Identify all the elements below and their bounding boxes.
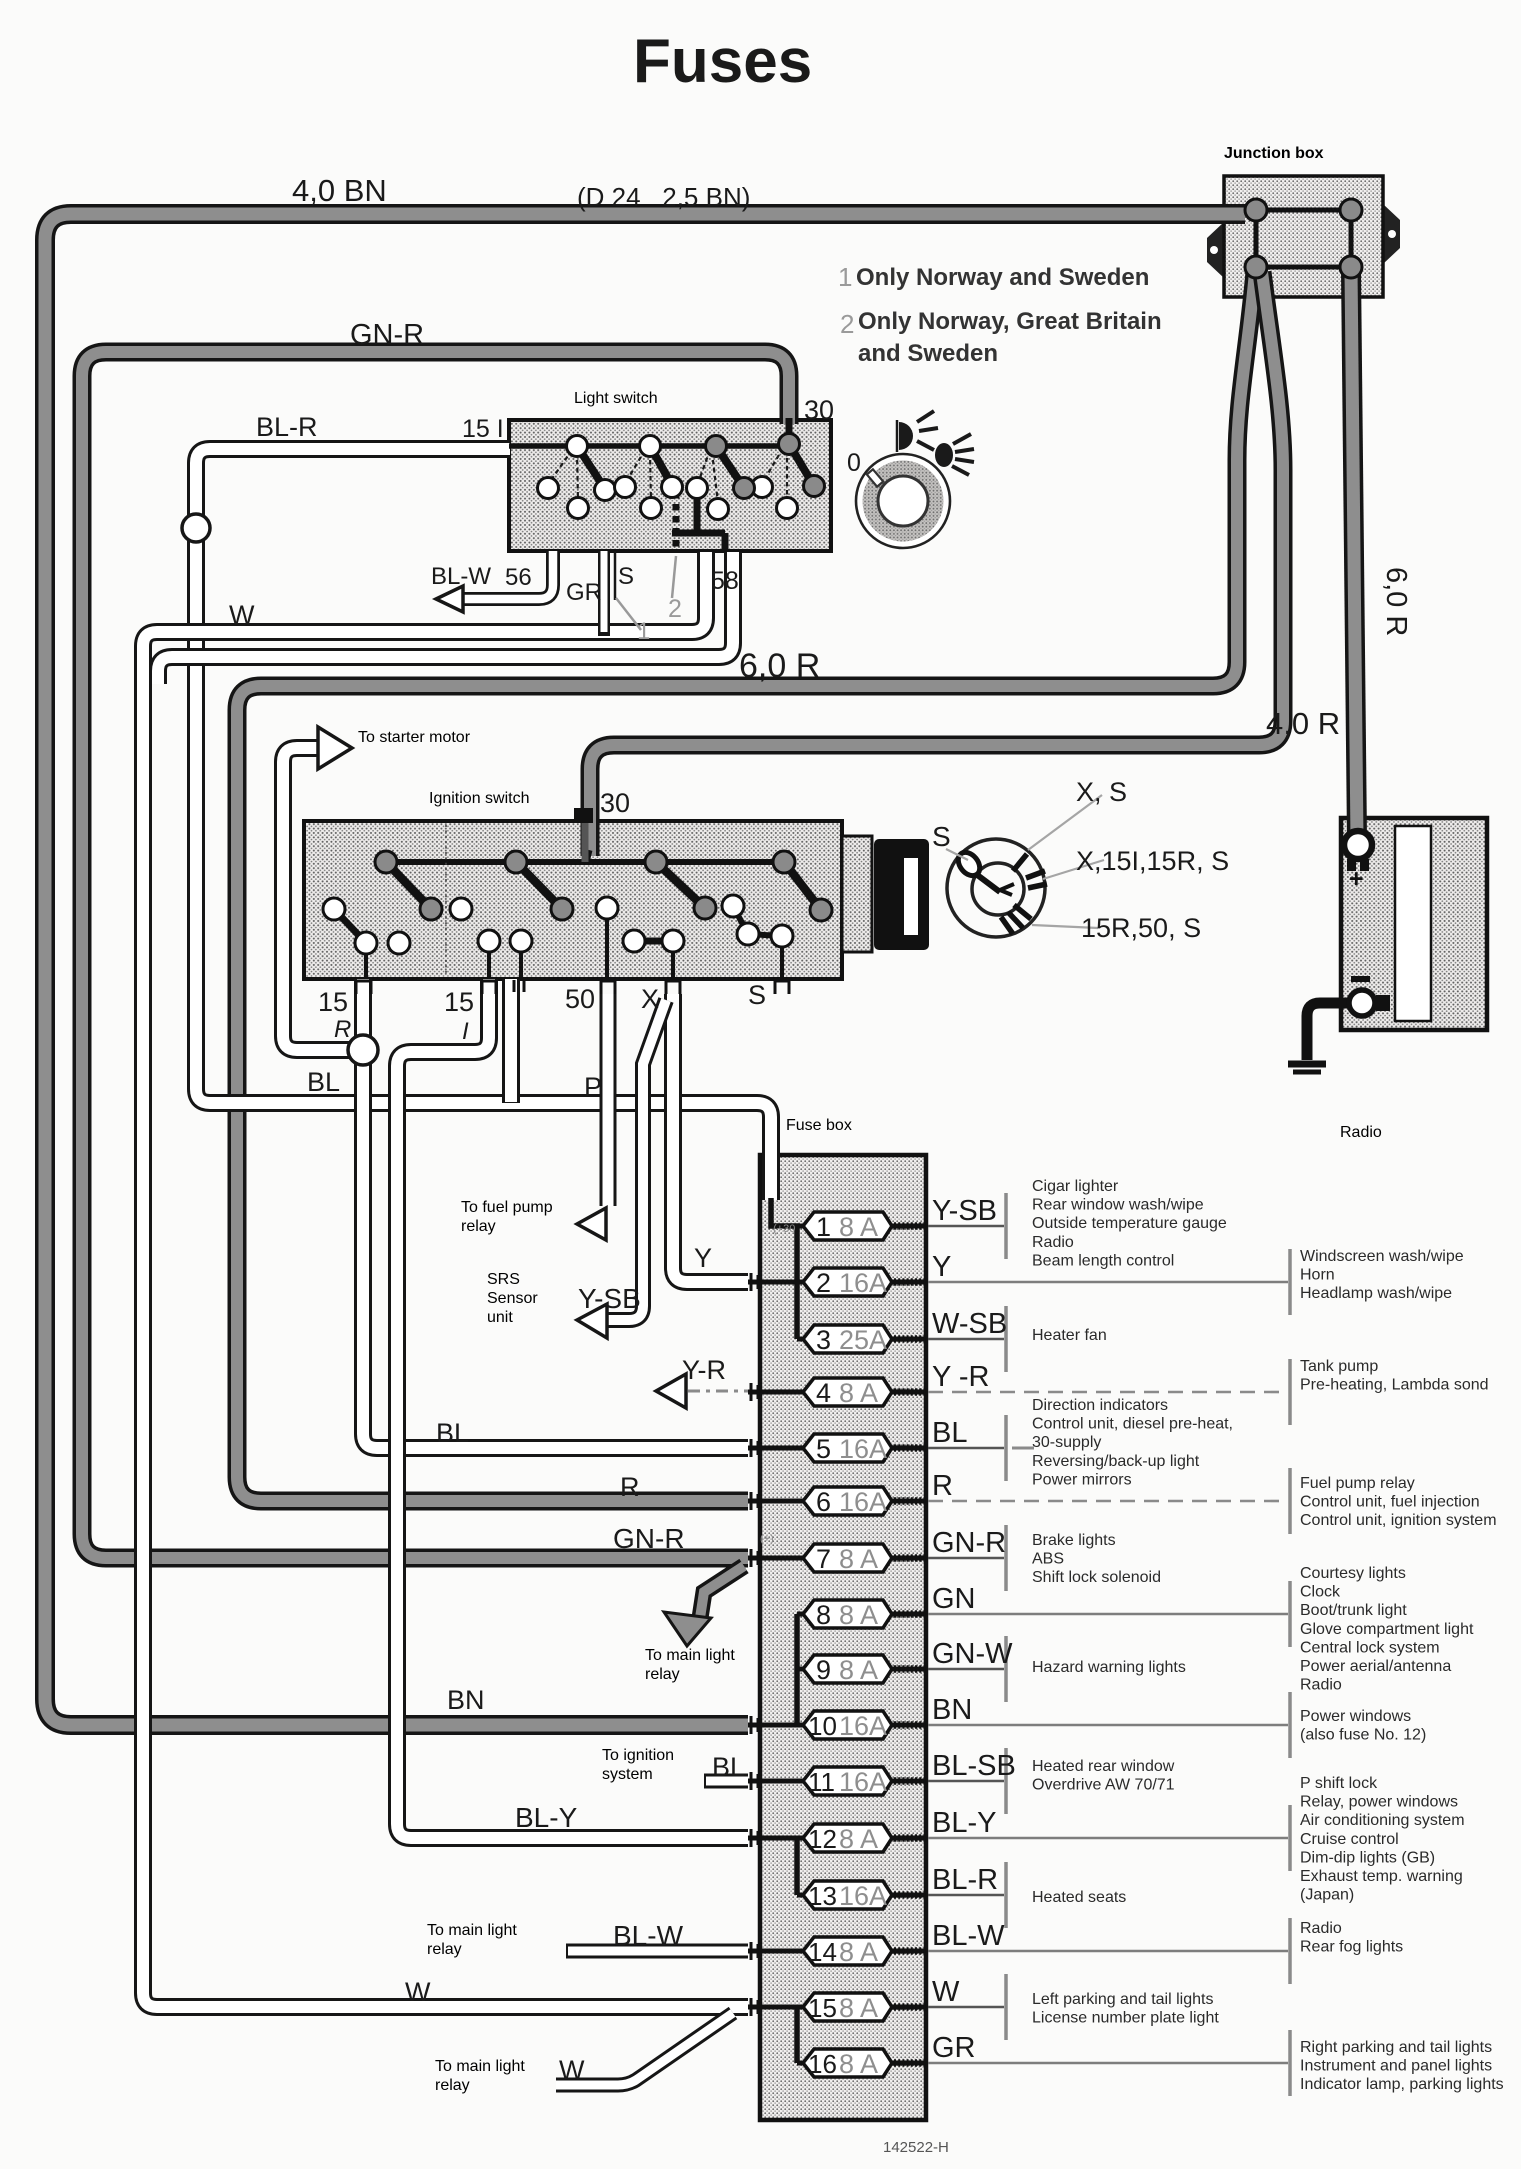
svg-text:1: 1 xyxy=(637,618,650,645)
svg-text:Radio: Radio xyxy=(1300,1677,1342,1694)
svg-text:W: W xyxy=(405,1977,431,2007)
svg-text:and Sweden: and Sweden xyxy=(858,340,998,367)
fuse F9 8 A (GN-W) xyxy=(797,1636,1013,1702)
headlight icon xyxy=(935,443,953,467)
ignition switch box xyxy=(304,821,872,979)
svg-text:3: 3 xyxy=(816,1325,831,1355)
svg-text:0: 0 xyxy=(847,449,861,477)
parking light icon xyxy=(899,422,913,450)
wire Y-SB branch to SRS sensor unit xyxy=(606,1000,666,1320)
wire S below light switch xyxy=(614,551,617,600)
svg-text:Y -R: Y -R xyxy=(932,1361,989,1393)
svg-text:15: 15 xyxy=(808,1993,837,2023)
description fuse F3 xyxy=(1032,1327,1107,1344)
svg-text:Control unit, fuel injection: Control unit, fuel injection xyxy=(1300,1494,1480,1511)
svg-text:142522-H: 142522-H xyxy=(883,2139,949,2156)
gray leader 1 xyxy=(616,598,641,630)
wire 4,0 BN : top run, left drop, BN feed to fuse 10 xyxy=(45,214,1245,1725)
svg-text:13: 13 xyxy=(808,1881,837,1911)
light switch box xyxy=(509,420,831,551)
svg-text:Radio: Radio xyxy=(1340,1124,1382,1141)
fuse F1 8 A (Y-SB) xyxy=(797,1193,1006,1259)
supply bus fuses 12-13 xyxy=(794,1838,800,1895)
svg-text:Cigar lighter: Cigar lighter xyxy=(1032,1178,1119,1195)
svg-text:12: 12 xyxy=(808,1824,837,1854)
svg-text:10: 10 xyxy=(808,1711,837,1741)
svg-text:GN-W: GN-W xyxy=(932,1638,1013,1670)
svg-text:Power mirrors: Power mirrors xyxy=(1032,1471,1132,1488)
arrow to fuel pump relay xyxy=(577,1208,606,1240)
ignition bus xyxy=(386,859,784,865)
svg-text:Courtesy lights: Courtesy lights xyxy=(1300,1565,1406,1582)
junction box terminals xyxy=(1256,210,1351,267)
svg-text:8: 8 xyxy=(816,1600,831,1630)
svg-text:BL-Y: BL-Y xyxy=(932,1807,996,1839)
supply bus fuses 8-10 xyxy=(794,1614,800,1725)
ignition contact circles xyxy=(323,851,832,954)
svg-text:8 A: 8 A xyxy=(839,1378,878,1408)
svg-text:16A: 16A xyxy=(839,1268,887,1298)
svg-text:1: 1 xyxy=(838,262,852,292)
svg-text:Reversing/back-up light: Reversing/back-up light xyxy=(1032,1453,1200,1470)
svg-text:1: 1 xyxy=(816,1212,831,1242)
svg-text:To starter motor: To starter motor xyxy=(358,729,471,746)
svg-text:BL-SB: BL-SB xyxy=(932,1750,1016,1782)
svg-text:Radio: Radio xyxy=(1300,1920,1342,1937)
svg-text:BL: BL xyxy=(712,1752,745,1782)
fuse F3 25A (W-SB) xyxy=(797,1306,1007,1372)
svg-text:16A: 16A xyxy=(839,1881,887,1911)
svg-text:X, S: X, S xyxy=(1076,777,1127,807)
svg-text:6: 6 xyxy=(816,1487,831,1517)
svg-text:5: 5 xyxy=(816,1434,831,1464)
svg-text:Sensor: Sensor xyxy=(487,1290,538,1307)
svg-text:W: W xyxy=(229,600,255,630)
svg-text:Fuses: Fuses xyxy=(633,27,812,96)
svg-text:To ignition: To ignition xyxy=(602,1747,674,1764)
svg-text:Headlamp wash/wipe: Headlamp wash/wipe xyxy=(1300,1285,1452,1302)
svg-text:11: 11 xyxy=(808,1767,835,1797)
svg-text:30: 30 xyxy=(600,788,630,818)
svg-text:R: R xyxy=(334,1016,351,1043)
svg-text:S: S xyxy=(748,980,766,1010)
svg-text:S: S xyxy=(932,821,951,852)
svg-text:(D 24 2,5 BN): (D 24 2,5 BN) xyxy=(577,182,750,212)
wire 6,0 R from junction box + R feed to fuse 6 xyxy=(237,272,1255,1501)
supply bus fuses 15-16 xyxy=(794,2007,800,2063)
svg-text:Junction box: Junction box xyxy=(1224,145,1324,162)
svg-text:Relay, power windows: Relay, power windows xyxy=(1300,1794,1458,1811)
svg-text:16A: 16A xyxy=(839,1487,887,1517)
svg-text:8 A: 8 A xyxy=(839,2049,878,2079)
svg-text:8 A: 8 A xyxy=(839,1824,878,1854)
svg-text:GN-R: GN-R xyxy=(350,319,424,351)
svg-text:Exhaust temp. warning: Exhaust temp. warning xyxy=(1300,1868,1463,1885)
svg-text:BL: BL xyxy=(932,1417,967,1449)
description fuse F12 xyxy=(1300,1775,1465,1904)
svg-text:I: I xyxy=(462,1018,469,1045)
svg-text:Heater fan: Heater fan xyxy=(1032,1327,1107,1344)
svg-text:BL-W: BL-W xyxy=(613,1920,684,1951)
svg-text:X: X xyxy=(641,984,659,1014)
supply bus fuses 1-3 xyxy=(771,1198,797,1339)
wire BL-R : light switch 15I, down left side, to fuse box top feed xyxy=(196,449,771,1200)
svg-text:relay: relay xyxy=(645,1666,680,1683)
light switch levers xyxy=(577,444,814,489)
svg-text:Y: Y xyxy=(932,1251,951,1283)
description fuse F15 xyxy=(1032,1991,1219,2027)
svg-text:4,0 R: 4,0 R xyxy=(1266,706,1340,741)
svg-text:(also fuse No. 12): (also fuse No. 12) xyxy=(1300,1727,1426,1744)
svg-text:30: 30 xyxy=(804,395,834,425)
light switch heavy dashed wire (2) xyxy=(673,492,680,551)
svg-text:Boot/trunk light: Boot/trunk light xyxy=(1300,1602,1407,1619)
svg-text:+: + xyxy=(1349,865,1364,893)
description fuse F9 xyxy=(1032,1659,1186,1676)
description fuse F7 xyxy=(1032,1532,1161,1586)
wire BL : ignition 15R junction down to fuse 5 xyxy=(363,979,748,1448)
svg-text:15 I: 15 I xyxy=(462,415,504,443)
light switch 58 link xyxy=(672,489,725,551)
svg-text:Instrument and panel lights: Instrument and panel lights xyxy=(1300,2058,1492,2075)
svg-text:Cruise control: Cruise control xyxy=(1300,1831,1399,1848)
svg-text:15: 15 xyxy=(444,987,474,1017)
fuse F15 8 A (W) xyxy=(748,1974,1006,2040)
svg-text:GR: GR xyxy=(566,579,602,606)
svg-text:6,0 R: 6,0 R xyxy=(1380,567,1412,636)
svg-text:Y: Y xyxy=(694,1243,712,1273)
svg-text:BL-W: BL-W xyxy=(431,563,491,590)
description fuse F1 xyxy=(1032,1178,1227,1269)
svg-text:Control unit, ignition system: Control unit, ignition system xyxy=(1300,1512,1497,1529)
svg-text:License number plate light: License number plate light xyxy=(1032,2010,1219,2027)
svg-text:14: 14 xyxy=(808,1937,837,1967)
svg-text:BL-Y: BL-Y xyxy=(515,1802,578,1833)
svg-text:16: 16 xyxy=(808,2049,837,2079)
svg-text:Indicator lamp, parking lights: Indicator lamp, parking lights xyxy=(1300,2076,1504,2093)
svg-text:15R,50, S: 15R,50, S xyxy=(1081,913,1201,943)
svg-text:BL: BL xyxy=(436,1418,469,1448)
svg-text:Ignition switch: Ignition switch xyxy=(429,790,530,807)
svg-text:GN-R: GN-R xyxy=(932,1527,1006,1559)
svg-text:To main light: To main light xyxy=(435,2058,525,2075)
fuse F16 8 A (GR) xyxy=(797,2030,1290,2096)
fuse F2 16A (Y) xyxy=(748,1249,1290,1315)
svg-text:8 A: 8 A xyxy=(839,1600,878,1630)
to main light relay thick arrow (off GN-R) xyxy=(664,1566,744,1646)
svg-text:Direction indicators: Direction indicators xyxy=(1032,1397,1168,1414)
svg-text:BN: BN xyxy=(447,1685,485,1715)
svg-text:Light switch: Light switch xyxy=(574,390,658,407)
svg-text:Hazard warning lights: Hazard warning lights xyxy=(1032,1659,1186,1676)
wire BL-Y : ignition 15I down to fuse 12 xyxy=(397,979,748,1838)
fuse F6 16A (R) xyxy=(748,1468,1290,1534)
svg-text:ABS: ABS xyxy=(1032,1551,1064,1568)
wire W branch to main light relay (bottom) xyxy=(556,2013,733,2085)
svg-text:(Japan): (Japan) xyxy=(1300,1887,1354,1904)
svg-text:BN: BN xyxy=(932,1694,972,1726)
svg-text:relay: relay xyxy=(461,1218,496,1235)
svg-text:To main light: To main light xyxy=(645,1647,735,1664)
svg-text:Overdrive AW 70/71: Overdrive AW 70/71 xyxy=(1032,1777,1175,1794)
svg-text:Control unit, diesel pre-heat,: Control unit, diesel pre-heat, xyxy=(1032,1416,1233,1433)
svg-text:Rear fog lights: Rear fog lights xyxy=(1300,1939,1403,1956)
svg-text:To main light: To main light xyxy=(427,1922,517,1939)
svg-text:GR: GR xyxy=(932,2032,976,2064)
svg-text:Beam length control: Beam length control xyxy=(1032,1252,1174,1269)
svg-text:system: system xyxy=(602,1766,653,1783)
description fuse F13 xyxy=(1032,1889,1126,1906)
svg-text:Heated rear window: Heated rear window xyxy=(1032,1758,1175,1775)
arrow Y-R dashed xyxy=(656,1374,686,1408)
ignition terminal brackets below box xyxy=(356,980,789,994)
svg-text:30-supply: 30-supply xyxy=(1032,1434,1101,1451)
fuse F7 8 A (GN-R) xyxy=(748,1525,1006,1591)
wire to starter motor xyxy=(283,748,352,1050)
description fuse F14 xyxy=(1300,1920,1403,1956)
description fuse F11 xyxy=(1032,1758,1175,1794)
svg-text:GN-R: GN-R xyxy=(613,1523,685,1554)
svg-text:8 A: 8 A xyxy=(839,1993,878,2023)
description fuse F6 xyxy=(1300,1475,1497,1529)
svg-text:(+30: (+30 xyxy=(773,1223,795,1235)
light switch 30 entry xyxy=(786,418,793,448)
svg-text:Windscreen wash/wipe: Windscreen wash/wipe xyxy=(1300,1248,1464,1265)
light switch bus xyxy=(509,443,800,449)
ignition 30 entry tab xyxy=(574,808,593,823)
svg-text:4: 4 xyxy=(816,1378,831,1408)
svg-text:Only Norway, Great Britain: Only Norway, Great Britain xyxy=(858,308,1162,335)
junction circle BL at ignition 15R xyxy=(348,1035,378,1065)
ignition levers xyxy=(386,862,821,910)
wire 4,0 R from junction box to ignition 30 xyxy=(590,272,1283,856)
arrow to starter motor xyxy=(318,727,352,769)
svg-text:58: 58 xyxy=(711,567,739,595)
svg-text:16A: 16A xyxy=(839,1434,887,1464)
svg-text:8 A: 8 A xyxy=(839,1937,878,1967)
description fuse F5 xyxy=(1032,1397,1233,1488)
fuse box xyxy=(760,1155,926,2120)
fuse F11 16A (BL-SB) xyxy=(748,1748,1016,1814)
gray leader 2 xyxy=(672,556,676,598)
svg-text:Rear window wash/wipe: Rear window wash/wipe xyxy=(1032,1197,1204,1214)
svg-text:2: 2 xyxy=(668,595,682,623)
svg-text:6,0 R: 6,0 R xyxy=(739,647,820,685)
svg-text:BL-R: BL-R xyxy=(932,1864,998,1896)
svg-text:Tank pump: Tank pump xyxy=(1300,1358,1378,1375)
ignition key symbol xyxy=(946,795,1104,937)
light switch dashed links xyxy=(549,448,787,503)
svg-text:Central lock system: Central lock system xyxy=(1300,1639,1440,1656)
description fuse F4 xyxy=(1300,1358,1489,1394)
svg-text:4,0 BN: 4,0 BN xyxy=(292,173,387,208)
svg-text:Right parking and tail lights: Right parking and tail lights xyxy=(1300,2039,1492,2056)
svg-text:P: P xyxy=(584,1072,602,1102)
svg-text:BL-W: BL-W xyxy=(932,1920,1005,1952)
description fuse F8 xyxy=(1300,1565,1474,1694)
svg-text:GN: GN xyxy=(932,1583,976,1615)
ignition small links xyxy=(334,909,366,943)
svg-text:16A: 16A xyxy=(839,1767,887,1797)
svg-text:Radio: Radio xyxy=(1032,1234,1074,1251)
wire W : light switch to fuse 15 xyxy=(143,552,748,2007)
svg-text:9: 9 xyxy=(816,1655,831,1685)
wire from ignition 15I' to BL-R feed xyxy=(502,979,520,1103)
svg-text:unit: unit xyxy=(487,1309,513,1326)
black connector block right of ignition switch xyxy=(874,839,929,950)
description fuse F2 xyxy=(1300,1248,1464,1302)
svg-text:S: S xyxy=(618,563,634,590)
svg-text:R: R xyxy=(932,1470,953,1502)
svg-text:SRS: SRS xyxy=(487,1271,520,1288)
fuse F12 8 A (BL-Y) xyxy=(748,1805,1290,1871)
svg-text:50: 50 xyxy=(565,984,595,1014)
battery xyxy=(1341,818,1487,1030)
svg-text:56: 56 xyxy=(505,564,532,591)
svg-text:To fuel pump: To fuel pump xyxy=(461,1199,553,1216)
fuse F4 8 A (Y -R) xyxy=(748,1359,1290,1425)
svg-text:8 A: 8 A xyxy=(839,1655,878,1685)
wire GN-R : upper run to light switch 30, left drop, feed to fuse 7 xyxy=(82,352,789,1558)
svg-text:25A: 25A xyxy=(839,1325,887,1355)
svg-text:BL-R: BL-R xyxy=(256,412,318,442)
svg-text:8 A: 8 A xyxy=(839,1544,878,1574)
wire BL-W stub to main light relay (fuse 14) xyxy=(566,1944,748,1959)
svg-text:Horn: Horn xyxy=(1300,1267,1335,1284)
fuse F14 8 A (BL-W) xyxy=(748,1918,1290,1984)
svg-text:Clock: Clock xyxy=(1300,1584,1341,1601)
svg-text:7: 7 xyxy=(816,1544,831,1574)
svg-text:15: 15 xyxy=(318,987,348,1017)
svg-text:Y-SB: Y-SB xyxy=(932,1195,997,1227)
svg-text:W: W xyxy=(559,2055,585,2085)
svg-text:W: W xyxy=(932,1976,960,2008)
fuse F13 16A (BL-R) xyxy=(797,1862,1006,1928)
wire Y : ignition X to fuse 2 xyxy=(673,994,748,1282)
svg-text:Power windows: Power windows xyxy=(1300,1708,1411,1725)
svg-text:Left parking and tail lights: Left parking and tail lights xyxy=(1032,1991,1213,2008)
svg-text:Fuse box: Fuse box xyxy=(786,1117,852,1134)
junction circle on BL-R wire xyxy=(182,514,210,542)
svg-text:R: R xyxy=(620,1472,640,1502)
svg-text:Fuel pump relay: Fuel pump relay xyxy=(1300,1475,1415,1492)
svg-text:Heated seats: Heated seats xyxy=(1032,1889,1126,1906)
wire 58 from light switch xyxy=(158,552,733,684)
arrow Y-SB to SRS xyxy=(577,1304,607,1338)
svg-text:Y-R: Y-R xyxy=(682,1355,726,1385)
svg-text:Air conditioning system: Air conditioning system xyxy=(1300,1812,1465,1829)
svg-text:W-SB: W-SB xyxy=(932,1308,1007,1340)
wire 6,0 R junction box to battery + xyxy=(1351,270,1357,840)
svg-text:(+): (+) xyxy=(760,1533,774,1545)
svg-text:2: 2 xyxy=(840,309,854,339)
wire GR below light switch xyxy=(598,551,610,636)
svg-text:8 A: 8 A xyxy=(839,1212,878,1242)
ignition terminal stubs xyxy=(366,908,782,979)
svg-text:2: 2 xyxy=(816,1268,831,1298)
svg-text:Glove compartment light: Glove compartment light xyxy=(1300,1621,1474,1638)
fuse F10 16A (BN) xyxy=(748,1692,1290,1758)
svg-text:relay: relay xyxy=(435,2077,470,2094)
svg-text:Y-SB: Y-SB xyxy=(578,1283,641,1314)
junction box xyxy=(1207,176,1400,297)
svg-text:Pre-heating, Lambda sond: Pre-heating, Lambda sond xyxy=(1300,1377,1489,1394)
fuse F5 16A (BL) xyxy=(748,1415,1006,1481)
fold dotted line xyxy=(445,825,447,975)
fuse F8 8 A (GN) xyxy=(797,1581,1290,1647)
svg-text:Dim-dip lights (GB): Dim-dip lights (GB) xyxy=(1300,1849,1435,1866)
svg-text:BL: BL xyxy=(307,1067,340,1097)
wire BL stub to ignition system (fuse 11) xyxy=(704,1774,748,1789)
svg-text:relay: relay xyxy=(427,1941,462,1958)
description fuse F10 xyxy=(1300,1708,1426,1744)
light switch contact circles xyxy=(538,434,825,520)
svg-text:Brake lights: Brake lights xyxy=(1032,1532,1116,1549)
svg-text:P shift lock: P shift lock xyxy=(1300,1775,1378,1792)
svg-text:Shift lock solenoid: Shift lock solenoid xyxy=(1032,1569,1161,1586)
svg-text:Power aerial/antenna: Power aerial/antenna xyxy=(1300,1658,1451,1675)
svg-text:Only Norway and Sweden: Only Norway and Sweden xyxy=(856,264,1149,291)
wire 56 to BL-W arrow xyxy=(462,551,553,599)
wire P (50) to fuel pump relay xyxy=(598,994,620,1232)
svg-text:X,15I,15R, S: X,15I,15R, S xyxy=(1076,846,1229,876)
description fuse F16 xyxy=(1300,2039,1504,2093)
svg-text:Outside temperature gauge: Outside temperature gauge xyxy=(1032,1215,1227,1232)
svg-text:16A: 16A xyxy=(839,1711,887,1741)
